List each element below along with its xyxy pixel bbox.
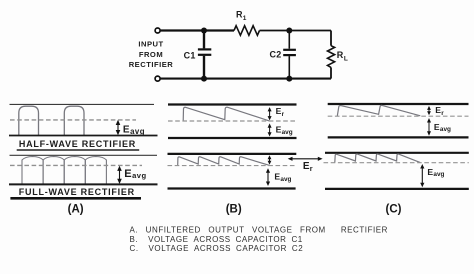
C full-wave bottom line — [325, 188, 469, 190]
label Eavg (B full-wave) — [274, 172, 291, 183]
half-wave baseline — [9, 135, 158, 137]
input terminal top — [155, 28, 160, 33]
CIRCUIT — [155, 26, 335, 82]
C half-wave C2 sawtooth — [337, 105, 420, 116]
C half-wave Eavg arrow — [427, 118, 431, 136]
svg-text:avg: avg — [280, 176, 291, 183]
wire C2 top lead — [288, 31, 290, 49]
B full-wave bottom line — [168, 187, 296, 189]
CAPTION — [130, 225, 389, 253]
svg-text:C1: C1 — [184, 51, 196, 61]
svg-text:(A): (A) — [68, 203, 84, 215]
half-wave Eavg arrow — [116, 120, 121, 135]
label Er (gap) — [303, 161, 313, 173]
svg-text:C. VOLTAGE ACROSS CAPACITOR C: C. VOLTAGE ACROSS CAPACITOR C2 — [130, 244, 304, 253]
wire bottom rail — [160, 78, 331, 80]
label Eavg (B half-wave) — [276, 124, 293, 135]
C full-wave plot top line — [325, 152, 469, 154]
Er gap annotation between B and C — [288, 157, 323, 173]
node junction C1 bottom — [201, 76, 207, 82]
B full-wave Eavg arrow — [266, 168, 270, 186]
label RL — [337, 50, 348, 62]
full-wave Eavg arrow — [117, 166, 122, 184]
svg-text:B. VOLTAGE ACROSS CAPACITOR C: B. VOLTAGE ACROSS CAPACITOR C1 — [130, 235, 303, 244]
half-wave Eavg dashed level — [10, 119, 136, 121]
wire top rail left — [160, 29, 234, 31]
B full-wave C1 sawtooth — [178, 157, 269, 166]
node junction C2 top — [286, 28, 292, 34]
svg-text:L: L — [344, 55, 348, 62]
svg-text:HALF-WAVE RECTIFIER: HALF-WAVE RECTIFIER — [19, 139, 136, 149]
svg-text:avg: avg — [282, 129, 293, 136]
B half-wave C1 sawtooth — [183, 107, 269, 121]
B full-wave Eavg dashed level — [168, 165, 297, 167]
svg-text:r: r — [282, 111, 285, 118]
svg-text:INPUT: INPUT — [138, 39, 163, 48]
resistor R1 — [234, 26, 260, 36]
PANEL B — [168, 105, 297, 216]
wire C1 top lead — [203, 31, 205, 49]
capacitor C2 — [283, 50, 296, 55]
label Er (C half-wave) — [435, 105, 444, 117]
label Eavg (full-wave) — [124, 168, 146, 180]
svg-text:E: E — [124, 168, 131, 180]
wire C2 bottom lead — [288, 56, 290, 79]
full-wave Eavg dashed level — [10, 164, 142, 166]
svg-text:avg: avg — [433, 171, 444, 178]
B full-wave Er ripple arrow — [268, 155, 272, 165]
svg-text:r: r — [310, 164, 313, 173]
wire RL bottom lead — [330, 67, 332, 78]
B half-wave Er arrow — [268, 107, 272, 120]
svg-text:(C): (C) — [386, 203, 402, 215]
svg-text:(B): (B) — [226, 203, 242, 215]
half-wave pulse 2 — [64, 106, 84, 135]
resistor RL — [328, 46, 335, 68]
C half-wave Eavg dashed level — [328, 115, 469, 117]
svg-text:FROM: FROM — [139, 50, 163, 59]
full-wave plot top line — [10, 154, 158, 156]
B half-wave Eavg arrow — [268, 123, 272, 136]
half-wave pulse 1 — [19, 106, 39, 135]
node junction C2 bottom — [286, 76, 292, 82]
svg-text:RECTIFIER: RECTIFIER — [129, 60, 174, 69]
C full-wave Eavg arrow — [420, 164, 424, 187]
label Er (B half-wave) — [276, 106, 285, 118]
full-wave baseline — [9, 183, 158, 185]
full-wave label thick bar — [10, 197, 141, 200]
wire RL top lead — [330, 31, 332, 46]
C half-wave plot top line — [328, 103, 469, 105]
svg-text:FULL-WAVE RECTIFIER: FULL-WAVE RECTIFIER — [19, 187, 135, 197]
wire top rail right — [260, 30, 332, 32]
half-wave label underline — [17, 149, 140, 151]
B half-wave plot top line — [168, 103, 297, 105]
svg-text:R: R — [337, 50, 344, 60]
label Eavg (C half-wave) — [434, 122, 451, 133]
svg-text:avg: avg — [132, 171, 146, 180]
svg-text:A. UNFILTERED OUTPUT VOLTAGE F: A. UNFILTERED OUTPUT VOLTAGE FROM RECTIF… — [130, 225, 389, 234]
svg-text:E: E — [123, 125, 130, 136]
B half-wave bottom line — [168, 137, 297, 139]
half-wave plot top line — [10, 103, 155, 105]
C half-wave bottom line — [328, 136, 469, 138]
label R1 — [236, 10, 247, 22]
wire C1 bottom lead — [203, 56, 205, 79]
svg-text:avg: avg — [130, 127, 145, 136]
B full-wave plot top line — [168, 153, 297, 155]
label INPUT FROM RECTIFIER — [129, 39, 174, 69]
C full-wave C2 sawtooth — [335, 154, 420, 162]
C full-wave Eavg dashed level — [324, 162, 469, 164]
C half-wave Er arrow — [427, 106, 431, 115]
Er horizontal double arrow — [288, 157, 323, 161]
svg-text:C2: C2 — [270, 50, 282, 60]
full-wave humps — [22, 157, 106, 185]
input terminal bottom — [155, 76, 160, 81]
B half-wave Eavg dashed level — [168, 120, 297, 122]
capacitor C1 — [198, 49, 211, 54]
svg-text:1: 1 — [243, 15, 247, 22]
PANEL C — [324, 104, 469, 215]
svg-text:avg: avg — [440, 126, 451, 133]
node junction C1 top — [201, 28, 207, 34]
label Eavg (C full-wave) — [427, 167, 444, 178]
PANEL A — [9, 104, 158, 215]
label Eavg (half-wave) — [123, 125, 145, 136]
